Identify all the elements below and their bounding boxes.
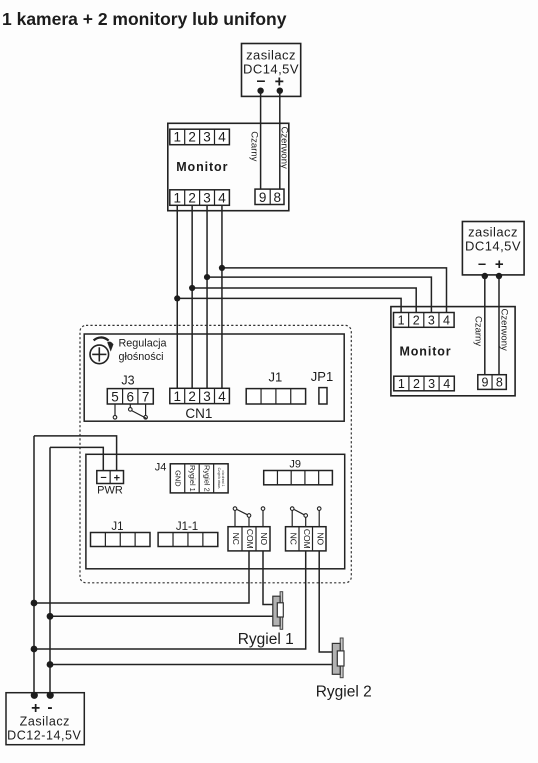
junction relay1 COM / bus plus [31,600,38,607]
svg-text:9: 9 [259,190,267,205]
svg-text:+: + [495,256,504,273]
wire supply minus to PWR minus [50,447,103,470]
svg-text:1: 1 [398,314,405,328]
connector J1-1 strip [158,533,218,547]
svg-text:–: – [478,257,486,273]
wire relay2 COM to supply plus [34,551,306,649]
svg-text:NO: NO [315,532,325,545]
svg-text:Monitor: Monitor [399,344,451,358]
svg-text:zasilacz: zasilacz [246,48,296,63]
connector J4 strip (GND, Rygiel 1, Rygiel 2, sensor) [170,464,228,493]
M2 bottom terminal strip 1 2 3 4 [394,376,455,391]
wire branch to M2 pin1 [177,298,401,312]
svg-text:5: 5 [111,389,119,404]
svg-text:Rygiel 2: Rygiel 2 [203,465,212,492]
svg-text:4: 4 [218,389,226,404]
svg-text:cia drzwi 1: cia drzwi 1 [221,470,225,486]
svg-text:2: 2 [188,190,196,205]
svg-text:–: – [257,73,266,90]
monitor M1 box [168,123,289,210]
svg-text:Czujnik otwar-: Czujnik otwar- [217,468,221,489]
svg-text:J1-1: J1-1 [176,521,198,533]
svg-text:CN1: CN1 [185,406,212,421]
svg-text:+: + [114,473,120,485]
svg-text:Czarny: Czarny [249,131,260,161]
wire M1 pin3 down to CN1 pin3 [206,205,208,388]
power supply PS1 zasilacz DC14,5V (top) [242,44,301,97]
svg-text:1 kamera + 2 monitory lub unif: 1 kamera + 2 monitory lub unifony [2,9,287,29]
junction Rygiel1 / bus minus [47,613,54,620]
svg-text:2: 2 [413,377,420,391]
svg-text:J4: J4 [155,462,167,474]
svg-text:1: 1 [173,190,181,205]
wire M1 pin4 down to CN1 pin4 [221,205,223,388]
connector CN1 strip 1 2 3 4 [170,388,230,404]
junction Rygiel2 / bus minus [47,661,54,668]
relay K2 pins and blade [290,507,321,527]
svg-text:Rygiel 1: Rygiel 1 [238,631,294,648]
svg-text:1: 1 [398,377,405,391]
svg-text:zasilacz: zasilacz [468,225,518,240]
svg-text:2: 2 [188,130,196,145]
svg-text:Monitor: Monitor [176,160,228,174]
wire relay2 NO to Rygiel2 [319,551,332,652]
wire PS1 minus to monitor1 terminal 9 (Czarny) [260,91,262,192]
M2 top terminal strip 1 2 3 4 [394,313,455,328]
svg-text:NC: NC [288,533,298,545]
wire PS2 plus to monitor2 terminal 8 [498,276,500,375]
svg-text:4: 4 [218,190,226,205]
camera lower pcb box [86,454,345,569]
wire branch to M2 pin2 [192,288,416,313]
wire branch to M2 pin4 [222,268,447,313]
electric strike Rygiel 1 symbol [273,592,284,630]
junction node pin3 [204,274,210,280]
svg-text:DC14,5V: DC14,5V [465,239,521,254]
power supply PS2 zasilacz DC14,5V (right) [462,222,524,275]
wire branch to M2 pin3 [207,277,431,312]
svg-text:COM: COM [302,529,312,549]
junction node pin4 [219,265,225,271]
svg-text:2: 2 [188,389,196,404]
wire supply plus to PWR plus [34,436,117,471]
svg-text:DC14,5V: DC14,5V [243,62,299,77]
svg-text:6: 6 [127,389,135,404]
PS1 terminal dot plus [277,88,283,94]
M1 top terminal strip 1 2 3 4 [170,129,230,145]
svg-text:NC: NC [231,533,241,545]
connector J1 (camera top) strip [246,389,305,404]
svg-text:J1: J1 [269,370,283,385]
camera unit dashed enclosure [80,325,351,582]
svg-text:3: 3 [203,130,211,145]
connector J9 strip [264,471,333,485]
svg-text:1: 1 [173,389,181,404]
wire relay1 COM to supply plus [34,551,249,603]
left supply bus minus (vertical) [49,447,51,695]
svg-text:4: 4 [443,377,450,391]
junction node pin1 [174,295,180,301]
junction relay2 COM / bus plus [31,646,38,653]
svg-text:–: – [100,472,106,484]
PS2 terminal dot plus [496,273,502,279]
volume adjust icon (circle with plus and arrow) [90,337,113,363]
svg-text:Czerwony: Czerwony [279,127,290,169]
label Regulacja głośności [119,338,167,364]
camera upper pcb box [84,334,344,421]
svg-text:2: 2 [413,314,420,328]
wire supply minus to Rygiel1 [50,615,273,617]
svg-text:Rygiel 1: Rygiel 1 [188,465,197,492]
bottom supply terminal dot minus [47,692,54,699]
svg-text:-: - [47,699,52,716]
svg-text:3: 3 [428,377,435,391]
svg-text:3: 3 [203,190,211,205]
wire supply minus to Rygiel2 [50,664,332,666]
svg-text:Rygiel 2: Rygiel 2 [316,684,372,701]
relay K1 pins and blade [233,507,265,527]
left supply bus plus (vertical) [33,436,35,696]
svg-text:PWR: PWR [97,485,123,497]
wire PS2 minus to monitor2 terminal 9 [484,276,486,375]
relay K1 contact strip NC COM NO [228,527,270,551]
connector PWR strip - + [97,471,124,485]
svg-text:4: 4 [443,314,450,328]
svg-text:9: 9 [482,375,489,389]
svg-text:Czerwony: Czerwony [499,309,510,351]
svg-text:DC12-14,5V: DC12-14,5V [7,729,81,743]
svg-text:Regulacja: Regulacja [119,338,167,350]
electric strike Rygiel 2 symbol [332,638,344,678]
M1 terminal strip 9 8 [255,189,284,205]
svg-text:3: 3 [428,314,435,328]
svg-text:J9: J9 [289,459,301,471]
connector J1 (lower) strip [91,533,151,547]
junction node pin2 [189,285,195,291]
svg-text:7: 7 [142,389,150,404]
svg-text:Zasilacz: Zasilacz [20,715,70,729]
svg-text:4: 4 [218,130,226,145]
svg-text:1: 1 [173,130,181,145]
PS1 terminal dot minus [257,88,263,94]
wire M1 pin1 down to CN1 pin1 [176,205,178,388]
M1 bottom terminal strip 1 2 3 4 [170,190,230,206]
svg-text:8: 8 [496,375,503,389]
J3 switch pins [113,404,147,419]
svg-text:8: 8 [273,190,281,205]
svg-text:NO: NO [259,532,269,545]
svg-text:J1: J1 [111,521,123,533]
PS2 terminal dot minus [482,273,488,279]
svg-text:głośności: głośności [119,351,164,363]
svg-text:GND: GND [174,470,183,486]
wire PS1 plus to monitor1 terminal 8 (Czerwony) [279,91,281,192]
power supply Zasilacz DC12-14,5V (bottom) [6,693,84,745]
svg-text:COM: COM [245,529,255,549]
wire relay1 NO to Rygiel1 [263,551,273,605]
wire M1 pin2 down to CN1 pin2 [191,205,193,388]
svg-text:3: 3 [203,389,211,404]
jumper JP1 box [319,388,327,404]
M2 terminal strip 9 8 [478,375,507,390]
svg-text:JP1: JP1 [311,369,333,384]
connector J3 strip 5 6 7 [107,389,153,405]
svg-text:J3: J3 [121,373,134,387]
relay K2 contact strip NC COM NO [286,527,327,551]
svg-text:Czarny: Czarny [473,316,484,346]
bottom supply terminal dot plus [31,692,38,699]
monitor M2 box [391,307,515,396]
